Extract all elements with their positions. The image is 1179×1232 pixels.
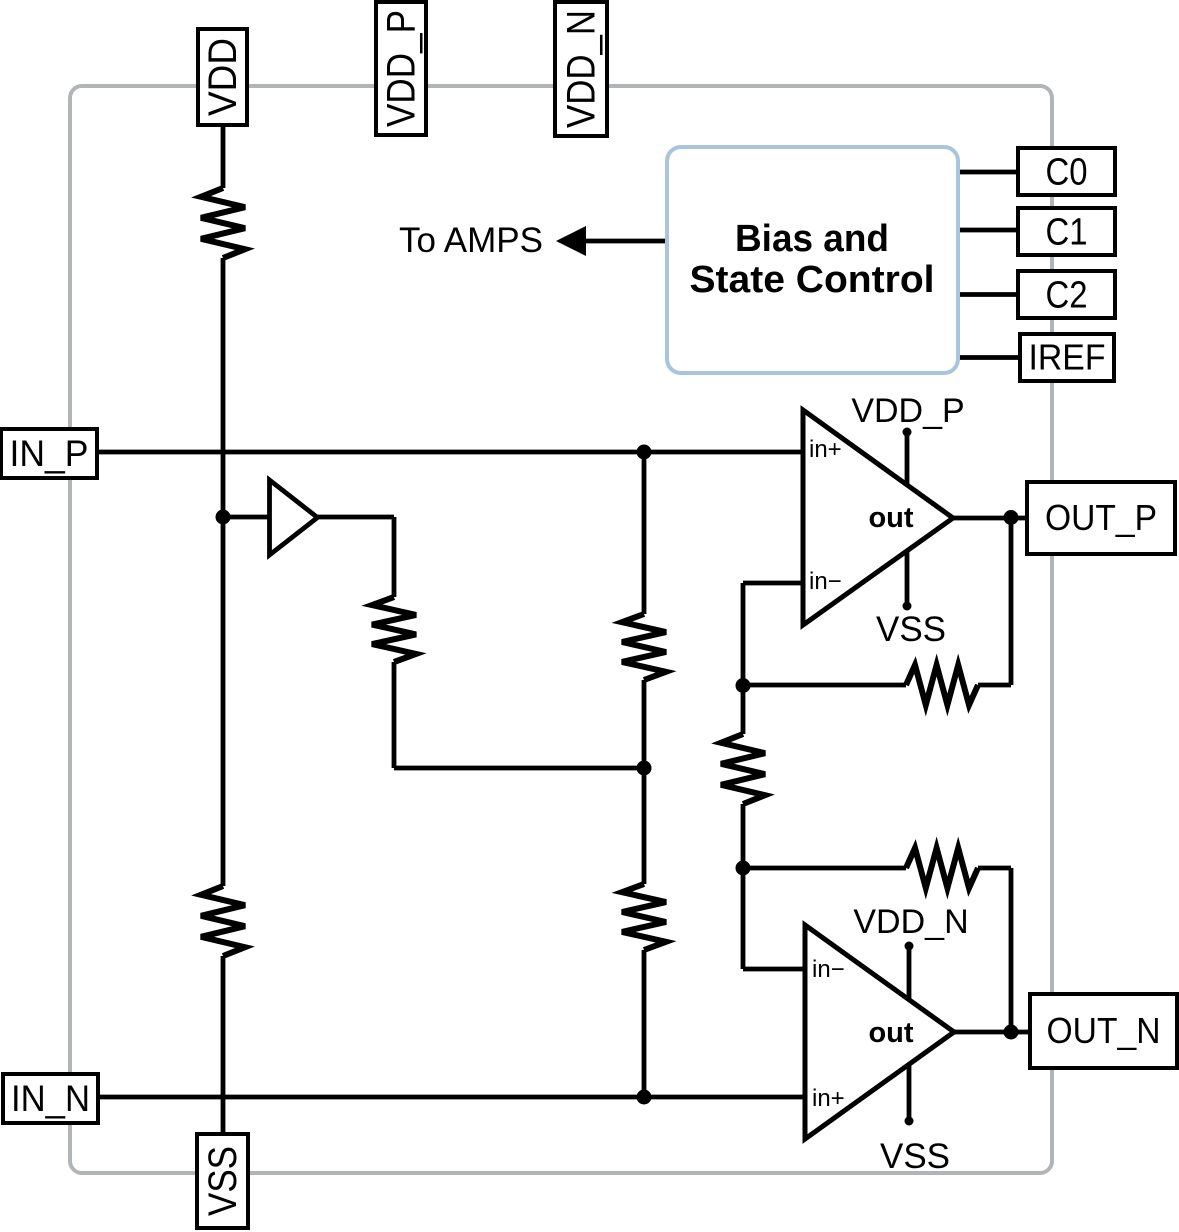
resistor R6 (P feedback) <box>906 665 978 705</box>
wire VSS stub opamp P <box>905 548 910 606</box>
svg-text:IN_N: IN_N <box>11 1078 90 1119</box>
pin OUT_N <box>1030 994 1177 1068</box>
svg-text:To AMPS: To AMPS <box>399 221 543 260</box>
pin dot VDD_P <box>903 428 912 437</box>
wire IN_P horizontal <box>98 450 803 455</box>
pin VDD_P <box>376 2 426 135</box>
svg-text:VDD_P: VDD_P <box>380 10 424 127</box>
svg-text:in+: in+ <box>809 436 842 463</box>
node P feedback <box>736 678 751 693</box>
wire opamp P output <box>953 516 1028 521</box>
arrowhead To AMPS <box>556 226 586 256</box>
wire opamp P feedback <box>743 518 1011 685</box>
wire bias to C2 <box>958 292 1018 297</box>
node OUT_N junction <box>1004 1025 1019 1040</box>
op-amp U1 (P) <box>803 410 953 625</box>
wire opamp N feedback <box>743 868 1011 1032</box>
wire VDD_N supply stub <box>907 946 912 1001</box>
pin IN_N <box>3 1074 98 1123</box>
wire opamp N in- <box>743 868 805 969</box>
resistor R8 (N feedback) <box>906 848 978 888</box>
resistor R4 (center lower) <box>622 884 666 950</box>
svg-text:IREF: IREF <box>1029 337 1106 378</box>
wire VDD net vertical <box>221 125 226 1134</box>
svg-text:VDD_P: VDD_P <box>851 392 964 430</box>
resistor R7 (between feedback nodes) <box>721 734 765 804</box>
pin VDD <box>198 29 247 125</box>
svg-text:out: out <box>868 1017 913 1049</box>
svg-text:OUT_P: OUT_P <box>1045 497 1157 538</box>
node buffer tap <box>216 510 231 525</box>
pin OUT_P <box>1027 482 1175 554</box>
pin IREF <box>1020 334 1114 381</box>
pin dot VDD_N <box>905 942 914 951</box>
pin VSS <box>197 1134 248 1228</box>
wire VDD_P supply stub <box>905 432 910 487</box>
pin IN_P <box>1 429 97 478</box>
wire bias to IREF <box>958 355 1018 360</box>
node buffer bend <box>637 761 652 776</box>
svg-text:VDD: VDD <box>201 38 245 116</box>
wire IN_N horizontal <box>98 1095 805 1100</box>
node IN_P tap <box>637 445 652 460</box>
svg-text:VSS: VSS <box>880 1137 950 1176</box>
svg-text:State Control: State Control <box>690 259 935 301</box>
wire bias to arrow <box>584 239 667 244</box>
wire opamp P in- <box>743 583 803 685</box>
svg-text:IN_P: IN_P <box>10 433 89 474</box>
svg-text:VSS: VSS <box>201 1146 245 1216</box>
bias and state control block <box>667 147 958 373</box>
pin C0 <box>1018 148 1115 195</box>
pin C2 <box>1018 271 1115 318</box>
svg-text:C2: C2 <box>1046 274 1088 316</box>
svg-text:Bias and: Bias and <box>735 218 889 260</box>
node IN_N tap <box>637 1090 652 1105</box>
wire buffer output path <box>316 517 644 768</box>
wire mid node column <box>741 685 746 868</box>
svg-text:C0: C0 <box>1046 151 1088 193</box>
pin dot VSS N <box>905 1117 914 1126</box>
wire opamp N output <box>954 1030 1030 1035</box>
svg-text:VDD_N: VDD_N <box>853 903 968 941</box>
wire buffer input <box>223 515 269 520</box>
pin C1 <box>1018 208 1115 255</box>
wire bias to C1 <box>958 228 1018 233</box>
resistor R3 (center upper) <box>622 614 666 680</box>
op-amp U2 (N) <box>805 925 954 1139</box>
resistor R5 (buffer branch) <box>372 597 416 662</box>
resistor R2 (above VSS) <box>201 886 245 956</box>
chip boundary <box>70 86 1052 1173</box>
resistor R1 (VDD top) <box>201 188 245 258</box>
node OUT_P junction <box>1004 510 1019 525</box>
svg-text:in−: in− <box>809 568 842 595</box>
wire bias to C0 <box>958 170 1018 175</box>
svg-text:in−: in− <box>812 956 845 983</box>
pin dot VSS P <box>903 602 912 611</box>
buffer U3 <box>270 480 318 555</box>
wire center column <box>642 452 647 1097</box>
node N feedback <box>736 861 751 876</box>
svg-text:VDD_N: VDD_N <box>560 10 604 128</box>
svg-text:in+: in+ <box>812 1085 845 1112</box>
wire VSS stub opamp N <box>907 1063 912 1121</box>
svg-text:VSS: VSS <box>876 610 946 649</box>
svg-text:out: out <box>868 502 913 534</box>
svg-text:OUT_N: OUT_N <box>1047 1010 1161 1051</box>
pin VDD_N <box>555 2 607 136</box>
svg-text:C1: C1 <box>1046 211 1088 253</box>
